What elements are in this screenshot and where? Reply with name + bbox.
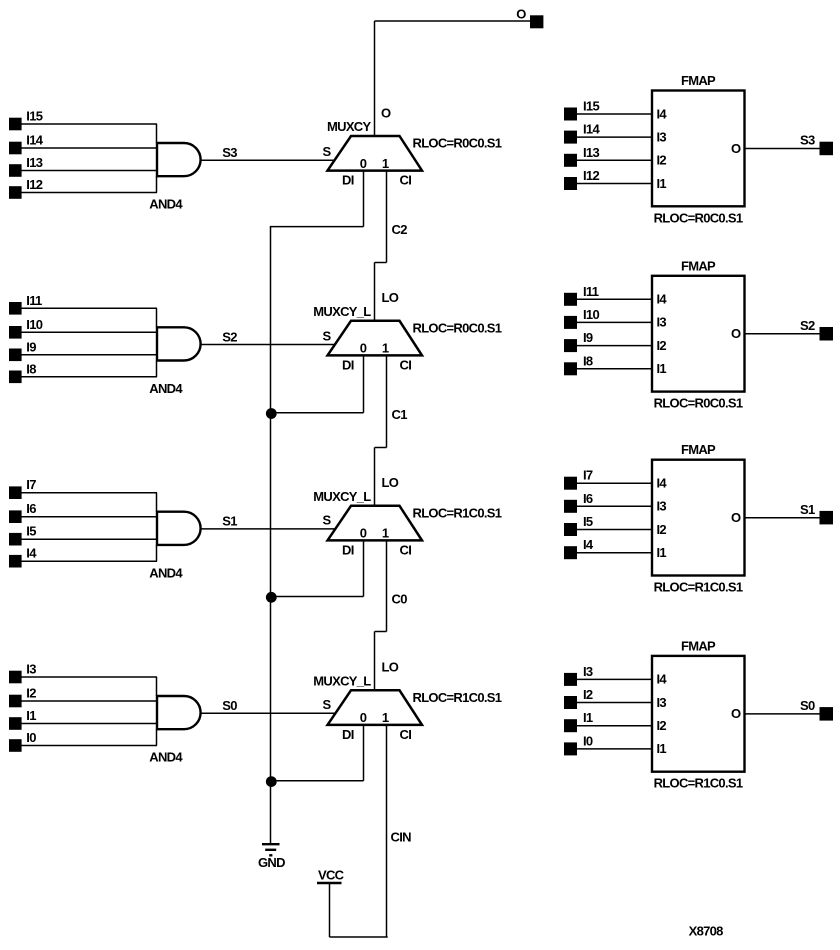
output pin S2 xyxy=(820,327,834,341)
wire I5 to FMAP I2 xyxy=(577,529,652,531)
svg-text:I1: I1 xyxy=(657,176,667,191)
svg-text:LO: LO xyxy=(382,475,399,490)
svg-text:RLOC=R1C0.S1: RLOC=R1C0.S1 xyxy=(654,776,743,791)
input pin I0 xyxy=(9,739,22,752)
wire I9 to AND4 xyxy=(21,354,157,356)
wire DI (row 3) to GND rail xyxy=(270,540,364,596)
wire I13 to AND4 xyxy=(21,170,157,172)
svg-text:I1: I1 xyxy=(657,361,667,376)
svg-text:RLOC=R1C0.S1: RLOC=R1C0.S1 xyxy=(413,505,502,520)
input pin I12 xyxy=(9,186,22,199)
wire I3 to AND4 xyxy=(21,677,157,696)
svg-text:I2: I2 xyxy=(657,718,667,733)
svg-text:S1: S1 xyxy=(800,502,815,517)
input pin I13 xyxy=(9,164,22,177)
input pin I4 (FMAP) xyxy=(564,546,577,559)
svg-text:DI: DI xyxy=(342,542,354,557)
svg-text:I2: I2 xyxy=(657,522,667,537)
svg-text:I12: I12 xyxy=(583,168,599,183)
svg-text:S3: S3 xyxy=(222,145,237,160)
svg-text:I1: I1 xyxy=(657,545,667,560)
svg-text:I3: I3 xyxy=(583,664,593,679)
output pin S1 xyxy=(820,511,834,525)
wire I7 to AND4 xyxy=(21,493,157,512)
svg-text:DI: DI xyxy=(342,727,354,742)
svg-text:S2: S2 xyxy=(222,329,237,344)
net S1: FMAP O to output pin xyxy=(745,517,820,519)
input pin I15 xyxy=(9,118,22,131)
svg-text:CI: CI xyxy=(400,173,412,188)
wire I4 to FMAP I1 xyxy=(577,552,652,554)
mux MUXCY_L (row 3) xyxy=(328,506,423,541)
wire I6 to AND4 xyxy=(21,516,157,518)
svg-text:S3: S3 xyxy=(800,133,815,148)
svg-text:O: O xyxy=(731,510,741,525)
svg-text:C2: C2 xyxy=(392,222,408,237)
svg-text:I4: I4 xyxy=(657,292,668,307)
wire I12 to AND4 xyxy=(21,176,157,192)
svg-text:I14: I14 xyxy=(26,133,43,148)
wire I8 to AND4 xyxy=(21,361,157,377)
svg-text:O: O xyxy=(731,326,741,341)
input pin I6 xyxy=(9,510,22,523)
junction on GND rail (row 2) xyxy=(266,408,277,419)
svg-text:0: 0 xyxy=(360,710,367,725)
output pin S3 xyxy=(820,142,834,156)
input pin I5 (FMAP) xyxy=(564,523,577,536)
svg-text:MUXCY_L: MUXCY_L xyxy=(313,489,371,504)
svg-text:I13: I13 xyxy=(583,145,599,160)
svg-text:DI: DI xyxy=(342,173,354,188)
svg-text:I1: I1 xyxy=(26,708,36,723)
svg-text:AND4: AND4 xyxy=(149,750,183,765)
svg-text:I6: I6 xyxy=(583,491,593,506)
svg-text:S0: S0 xyxy=(222,698,237,713)
input pin I14 (FMAP) xyxy=(564,131,577,144)
svg-text:S1: S1 xyxy=(222,514,237,529)
FMAP block (row 2) xyxy=(652,276,745,392)
wire I2 to AND4 xyxy=(21,700,157,702)
FMAP block (row 1) xyxy=(652,91,745,207)
svg-text:I3: I3 xyxy=(657,315,667,330)
svg-text:I5: I5 xyxy=(26,524,36,539)
power symbol VCC xyxy=(317,882,342,884)
wire I9 to FMAP I2 xyxy=(577,345,652,347)
wire I5 to AND4 xyxy=(21,538,157,540)
svg-text:I8: I8 xyxy=(26,361,36,376)
wire I4 to AND4 xyxy=(21,545,157,561)
svg-text:I11: I11 xyxy=(583,284,599,299)
svg-text:I4: I4 xyxy=(26,546,37,561)
net S1: AND4 output to MUXCY_L S input xyxy=(201,528,335,530)
svg-text:DI: DI xyxy=(342,357,354,372)
svg-text:I3: I3 xyxy=(657,129,667,144)
net S3: AND4 output to MUXCY S input xyxy=(201,159,335,161)
svg-text:RLOC=R0C0.S1: RLOC=R0C0.S1 xyxy=(654,210,743,225)
svg-text:AND4: AND4 xyxy=(149,197,183,212)
svg-text:I7: I7 xyxy=(26,477,36,492)
svg-text:O: O xyxy=(731,706,741,721)
svg-text:O: O xyxy=(381,105,391,120)
input pin I3 xyxy=(9,671,22,684)
input pin I15 (FMAP) xyxy=(564,108,577,121)
svg-text:CI: CI xyxy=(400,542,412,557)
input pin I13 (FMAP) xyxy=(564,154,577,167)
wire I10 to FMAP I3 xyxy=(577,321,652,323)
wire I14 to FMAP I3 xyxy=(577,136,652,138)
wire I12 to FMAP I1 xyxy=(577,183,652,185)
input pin I2 (FMAP) xyxy=(564,696,577,709)
wire I6 to FMAP I3 xyxy=(577,505,652,507)
input pin I12 (FMAP) xyxy=(564,177,577,190)
svg-text:I4: I4 xyxy=(657,672,668,687)
net C2: CI of row 1 to LO of row 2 xyxy=(375,171,387,321)
svg-text:LO: LO xyxy=(382,290,399,305)
input pin I7 xyxy=(9,486,22,499)
svg-text:I14: I14 xyxy=(583,122,600,137)
input pin I14 xyxy=(9,142,22,155)
svg-text:I13: I13 xyxy=(26,155,42,170)
svg-text:I11: I11 xyxy=(26,293,42,308)
wire I3 to FMAP I4 xyxy=(577,678,652,680)
svg-text:I2: I2 xyxy=(657,338,667,353)
svg-text:RLOC=R1C0.S1: RLOC=R1C0.S1 xyxy=(413,690,502,705)
input pin I10 xyxy=(9,326,22,339)
svg-text:LO: LO xyxy=(382,660,399,675)
input pin I7 (FMAP) xyxy=(564,477,577,490)
svg-text:I4: I4 xyxy=(657,476,668,491)
wire DI (row 1) to GND rail xyxy=(270,171,364,227)
svg-text:I9: I9 xyxy=(26,339,36,354)
net S3: FMAP O to output pin xyxy=(745,148,820,150)
svg-text:1: 1 xyxy=(382,341,389,356)
input pin I8 (FMAP) xyxy=(564,362,577,375)
junction on GND rail (row 4) xyxy=(266,776,277,787)
svg-text:S: S xyxy=(323,328,332,343)
svg-text:S0: S0 xyxy=(800,698,815,713)
AND gate AND4 (row 4) xyxy=(157,695,201,730)
svg-text:I2: I2 xyxy=(657,153,667,168)
svg-text:0: 0 xyxy=(360,156,367,171)
svg-text:S: S xyxy=(323,513,332,528)
mux MUXCY (row 1) xyxy=(328,136,423,171)
net GND rail (DI pull-down) xyxy=(270,227,272,843)
FMAP block (row 4) xyxy=(652,656,745,772)
svg-text:O: O xyxy=(516,7,526,22)
svg-text:I3: I3 xyxy=(657,499,667,514)
svg-text:I12: I12 xyxy=(26,177,42,192)
input pin I1 (FMAP) xyxy=(564,719,577,732)
net S2: AND4 output to MUXCY_L S input xyxy=(201,344,335,346)
svg-text:RLOC=R0C0.S1: RLOC=R0C0.S1 xyxy=(413,320,502,335)
input pin I0 (FMAP) xyxy=(564,742,577,755)
wire I13 to FMAP I2 xyxy=(577,159,652,161)
svg-text:CIN: CIN xyxy=(391,830,412,845)
svg-text:S: S xyxy=(323,697,332,712)
FMAP block (row 3) xyxy=(652,460,745,576)
svg-text:CI: CI xyxy=(400,727,412,742)
net S0: FMAP O to output pin xyxy=(745,713,820,715)
input pin I6 (FMAP) xyxy=(564,500,577,513)
svg-text:RLOC=R1C0.S1: RLOC=R1C0.S1 xyxy=(654,580,743,595)
svg-text:FMAP: FMAP xyxy=(681,638,716,653)
svg-text:0: 0 xyxy=(360,526,367,541)
svg-text:C0: C0 xyxy=(392,591,408,606)
svg-text:RLOC=R0C0.S1: RLOC=R0C0.S1 xyxy=(413,136,502,151)
junction on GND rail (row 3) xyxy=(266,592,277,603)
wire I14 to AND4 xyxy=(21,147,157,149)
svg-text:I1: I1 xyxy=(583,710,593,725)
svg-text:I4: I4 xyxy=(583,537,594,552)
net C0: CI of row 3 to LO of row 4 xyxy=(375,540,387,690)
svg-text:O: O xyxy=(731,141,741,156)
wire I15 to AND4 xyxy=(21,124,157,143)
wire I8 to FMAP I1 xyxy=(577,368,652,370)
wire I1 to AND4 xyxy=(21,723,157,725)
wire DI (row 2) to GND rail xyxy=(270,355,364,412)
svg-text:VCC: VCC xyxy=(318,867,345,882)
net CIN: VCC to CI of bottom MUXCY_L xyxy=(330,725,388,937)
net C1: CI of row 2 to LO of row 3 xyxy=(375,355,387,505)
input pin I9 (FMAP) xyxy=(564,339,577,352)
svg-text:I2: I2 xyxy=(583,687,593,702)
AND gate AND4 (row 3) xyxy=(157,511,201,546)
output pin O xyxy=(530,15,543,28)
svg-text:I4: I4 xyxy=(657,106,668,121)
wire I11 to FMAP I4 xyxy=(577,298,652,300)
input pin I5 xyxy=(9,533,22,546)
svg-text:1: 1 xyxy=(382,156,389,171)
mux MUXCY_L (row 4) xyxy=(328,690,423,725)
wire I0 to FMAP I1 xyxy=(577,748,652,750)
svg-text:GND: GND xyxy=(258,855,285,870)
svg-text:I3: I3 xyxy=(26,662,36,677)
wire I15 to FMAP I4 xyxy=(577,113,652,115)
svg-text:S: S xyxy=(323,144,332,159)
svg-text:I9: I9 xyxy=(583,330,593,345)
wire I0 to AND4 xyxy=(21,729,157,745)
output pin S0 xyxy=(820,707,834,721)
svg-text:AND4: AND4 xyxy=(149,565,183,580)
AND gate AND4 (row 1) xyxy=(157,142,201,177)
svg-text:MUXCY_L: MUXCY_L xyxy=(313,673,371,688)
svg-text:RLOC=R0C0.S1: RLOC=R0C0.S1 xyxy=(654,396,743,411)
svg-text:CI: CI xyxy=(400,357,412,372)
svg-text:0: 0 xyxy=(360,341,367,356)
svg-text:I1: I1 xyxy=(657,741,667,756)
input pin I2 xyxy=(9,695,22,708)
wire I1 to FMAP I2 xyxy=(577,725,652,727)
svg-text:I6: I6 xyxy=(26,501,36,516)
svg-text:S2: S2 xyxy=(800,318,815,333)
svg-text:AND4: AND4 xyxy=(149,381,183,396)
svg-text:I10: I10 xyxy=(26,317,42,332)
mux MUXCY_L (row 2) xyxy=(328,321,423,356)
svg-text:I0: I0 xyxy=(583,733,593,748)
input pin I11 (FMAP) xyxy=(564,293,577,306)
svg-text:MUXCY: MUXCY xyxy=(327,119,371,134)
input pin I9 xyxy=(9,349,22,362)
svg-text:I0: I0 xyxy=(26,730,36,745)
svg-text:FMAP: FMAP xyxy=(681,258,716,273)
svg-text:C1: C1 xyxy=(392,407,408,422)
input pin I10 (FMAP) xyxy=(564,316,577,329)
svg-text:X8708: X8708 xyxy=(689,924,724,939)
wire I10 to AND4 xyxy=(21,331,157,333)
input pin I3 (FMAP) xyxy=(564,673,577,686)
svg-text:1: 1 xyxy=(382,710,389,725)
ground symbol GND xyxy=(262,844,280,855)
svg-text:I8: I8 xyxy=(583,353,593,368)
svg-text:I15: I15 xyxy=(26,109,42,124)
input pin I4 xyxy=(9,555,22,568)
net S0: AND4 output to MUXCY_L S input xyxy=(201,712,335,714)
input pin I1 xyxy=(9,717,22,730)
svg-text:I15: I15 xyxy=(583,99,599,114)
svg-text:FMAP: FMAP xyxy=(681,442,716,457)
AND gate AND4 (row 2) xyxy=(157,326,201,361)
svg-text:I3: I3 xyxy=(657,695,667,710)
net O: wire from MUXCY O output up and right to output pin xyxy=(375,21,531,136)
svg-text:I7: I7 xyxy=(583,468,593,483)
wire DI (row 4) to GND rail xyxy=(270,725,364,781)
input pin I8 xyxy=(9,371,22,384)
svg-text:I10: I10 xyxy=(583,307,599,322)
svg-text:I5: I5 xyxy=(583,514,593,529)
wire I7 to FMAP I4 xyxy=(577,482,652,484)
wire I2 to FMAP I3 xyxy=(577,702,652,704)
svg-text:1: 1 xyxy=(382,526,389,541)
svg-text:FMAP: FMAP xyxy=(681,73,716,88)
svg-text:MUXCY_L: MUXCY_L xyxy=(313,304,371,319)
net S2: FMAP O to output pin xyxy=(745,333,820,335)
wire I11 to AND4 xyxy=(21,308,157,327)
svg-text:I2: I2 xyxy=(26,686,36,701)
input pin I11 xyxy=(9,302,22,315)
